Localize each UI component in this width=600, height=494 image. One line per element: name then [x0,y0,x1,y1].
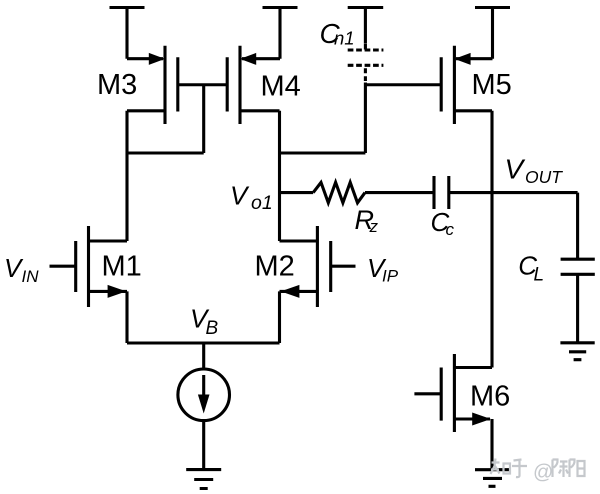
svg-text:n1: n1 [334,28,355,49]
svg-text:c: c [446,220,455,239]
svg-text:M3: M3 [97,69,137,101]
svg-text:z: z [369,217,379,236]
svg-text:M1: M1 [102,251,142,283]
svg-text:L: L [534,265,545,286]
svg-text:o1: o1 [251,192,273,214]
svg-text:M4: M4 [261,70,301,102]
svg-text:OUT: OUT [525,167,563,187]
svg-text:M6: M6 [470,381,510,413]
svg-text:IP: IP [382,266,399,285]
svg-text:@: @ [533,462,553,484]
svg-text:V: V [230,180,250,210]
svg-text:V: V [505,154,526,185]
svg-text:B: B [206,318,219,339]
svg-text:M2: M2 [255,251,295,283]
svg-text:M5: M5 [472,69,512,101]
svg-text:IN: IN [22,267,40,286]
